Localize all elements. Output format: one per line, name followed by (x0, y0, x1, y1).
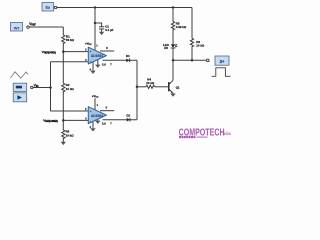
svg-text:AD8561: AD8561 (91, 114, 104, 118)
svg-text:20 kΩ: 20 kΩ (146, 81, 155, 85)
svg-text:VREF(LOWER): VREF(LOWER) (43, 119, 58, 124)
svg-text:+: + (90, 110, 92, 114)
svg-text:VREF(UPPER): VREF(UPPER) (42, 50, 56, 55)
svg-text:−: − (90, 60, 92, 64)
svg-text:0.1 μF: 0.1 μF (105, 28, 114, 32)
svg-text:Q1: Q1 (176, 85, 180, 89)
svg-text:COMPOTECH: COMPOTECH (179, 126, 225, 138)
svg-text:Asia: Asia (222, 131, 231, 137)
svg-text:D1: D1 (126, 54, 130, 58)
svg-text:D2: D2 (126, 113, 130, 117)
svg-text:D3: D3 (164, 46, 168, 50)
svg-text:3+: 3+ (220, 59, 225, 64)
svg-text:50 kΩ: 50 kΩ (66, 38, 75, 42)
svg-text:+: + (90, 50, 92, 54)
svg-text:10 kΩ: 10 kΩ (66, 133, 75, 137)
svg-text:AD8561: AD8561 (91, 54, 104, 58)
svg-text:5,6: 5,6 (102, 121, 106, 125)
svg-text:5v: 5v (45, 5, 50, 10)
svg-text:10 kΩ: 10 kΩ (196, 44, 205, 48)
svg-text:10 kΩ: 10 kΩ (66, 87, 75, 91)
svg-text:−: − (90, 120, 92, 124)
svg-text:5,6: 5,6 (102, 63, 106, 67)
svg-text:4.99 kΩ: 4.99 kΩ (176, 25, 187, 29)
svg-text:WT: WT (14, 25, 20, 30)
